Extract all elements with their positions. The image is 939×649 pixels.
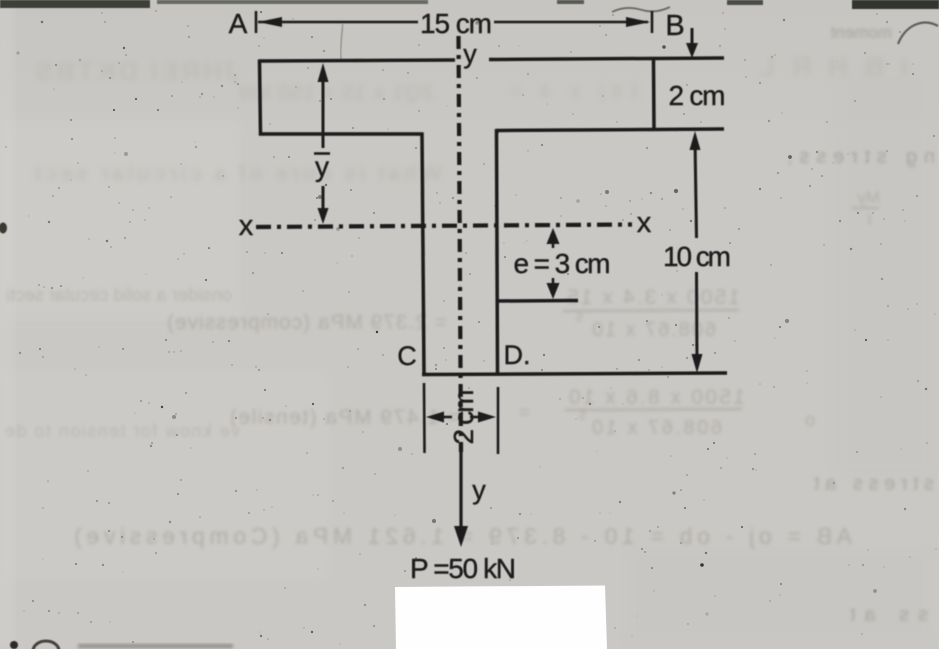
svg-text:stress at: stress at [814, 473, 934, 495]
svg-text:y: y [472, 475, 486, 505]
web width dimension left tick [423, 383, 426, 453]
svg-text:e = 3 cm: e = 3 cm [514, 248, 611, 279]
svg-text:10 cm: 10 cm [663, 241, 731, 272]
10 cm dimension upper segment [695, 140, 697, 238]
arrow at B pointing to flange top [691, 28, 694, 46]
svg-text:5: 5 [576, 310, 583, 325]
web bottom edge with right extension [422, 373, 727, 375]
white correction patch bottom [395, 586, 607, 649]
top right corner squiggle [898, 23, 938, 44]
load P arrowhead [454, 526, 468, 547]
web width dimension right tick [497, 387, 500, 454]
load P arrow shaft [459, 452, 462, 530]
ghost squiggle near B [612, 7, 670, 12]
svg-text:C: C [397, 341, 417, 371]
svg-text:15 cm: 15 cm [420, 8, 492, 39]
flange bottom edge right of web [496, 129, 724, 131]
ghost formula 1500 x 8.6 x 10 fraction [230, 386, 815, 439]
svg-text:P =50 kN: P =50 kN [410, 553, 516, 584]
e dimension upper arrow [552, 238, 555, 248]
svg-text:moment: moment [830, 23, 892, 42]
ghost bleed-through heading band right [758, 51, 908, 82]
svg-text:onsider a solid circular secti: onsider a solid circular secti [6, 285, 232, 305]
svg-text:JHREI DKTBS: JHREI DKTBS [35, 56, 240, 86]
y-bar dimension arrow upper segment [322, 72, 325, 148]
ghost bleed-through heading band left [35, 56, 640, 105]
top edge dark scan bands [0, 0, 939, 9]
text labels of figure [229, 8, 731, 584]
svg-text:y: y [463, 39, 477, 69]
e dimension lower arrow [552, 278, 555, 290]
svg-text:10j x 4 =: 10j x 4 = [510, 81, 640, 103]
faint scratch above flange [341, 24, 343, 60]
svg-text:B: B [665, 10, 684, 42]
svg-text:608.67 x 10: 608.67 x 10 [592, 417, 722, 439]
flange bottom edge left of web [259, 132, 423, 136]
svg-text:ve know for tension to de: ve know for tension to de [5, 421, 240, 441]
svg-text:D.: D. [504, 340, 531, 370]
y-bar overbar [314, 152, 330, 155]
web right edge [497, 129, 498, 374]
load point level line [497, 299, 578, 303]
flange right edge [652, 59, 656, 131]
flange left edge [260, 60, 261, 136]
x axis dash-dot centroidal line [256, 225, 632, 228]
15 cm left arrowhead [258, 17, 282, 27]
web width right arrowhead [470, 416, 478, 419]
svg-text:=: = [518, 402, 530, 424]
svg-text:2 cm: 2 cm [448, 390, 479, 445]
svg-text:o: o [805, 410, 815, 430]
svg-text:x: x [239, 210, 254, 242]
web width left arrowhead [443, 416, 452, 419]
svg-text:y: y [315, 151, 329, 182]
svg-text:= 2.379 MPa (compressive): = 2.379 MPa (compressive) [167, 311, 447, 334]
flange top edge left part [259, 60, 455, 61]
bottom left ink marks [10, 641, 233, 649]
svg-text:x: x [637, 207, 652, 239]
10 cm dimension lower segment [695, 272, 699, 362]
y axis dash-dot line [459, 36, 462, 452]
15 cm right arrowhead [626, 17, 650, 27]
ghost formula 1500 x 3.4 x 15 fraction [167, 286, 740, 341]
15 cm dimension ticks and shafts [256, 11, 652, 33]
ghost My over I fraction [851, 188, 880, 229]
svg-text:2Q1 x 15 = 150 kW: 2Q1 x 15 = 150 kW [238, 80, 434, 105]
flange top edge right part [489, 58, 724, 60]
y-bar dimension arrow lower segment [322, 186, 325, 214]
svg-text:I: I [867, 210, 872, 229]
svg-text:5: 5 [579, 408, 586, 423]
web left edge [422, 133, 424, 376]
svg-text:A: A [229, 8, 248, 39]
left edge ink spot [0, 223, 7, 234]
svg-text:My: My [857, 188, 880, 207]
T-section figure [229, 8, 731, 584]
svg-text:2 cm: 2 cm [669, 80, 726, 111]
